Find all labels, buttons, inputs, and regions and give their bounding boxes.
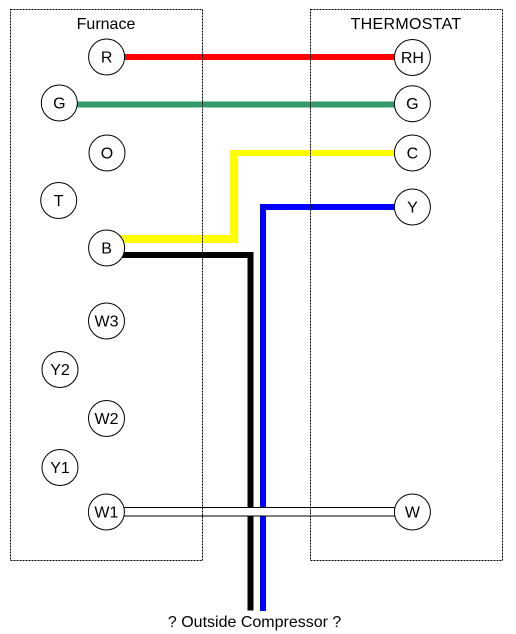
svg-text:THERMOSTAT: THERMOSTAT bbox=[351, 16, 462, 33]
terminal O bbox=[89, 135, 125, 171]
svg-text:Y2: Y2 bbox=[50, 362, 70, 379]
svg-text:C: C bbox=[407, 146, 419, 163]
svg-text:? Outside Compressor ?: ? Outside Compressor ? bbox=[168, 614, 342, 631]
terminal G thermostat bbox=[394, 86, 430, 122]
wire black B horizontal bbox=[106, 252, 254, 258]
wire blue Y vertical to compressor bbox=[260, 204, 266, 611]
svg-text:G: G bbox=[53, 96, 65, 113]
wire blue Y horizontal bbox=[260, 204, 413, 210]
terminal Y bbox=[394, 189, 430, 225]
terminal W bbox=[394, 494, 430, 530]
svg-text:W1: W1 bbox=[94, 505, 118, 522]
wire yellow C-B vertical bbox=[230, 150, 238, 243]
svg-text:W2: W2 bbox=[95, 411, 119, 428]
terminal Y2 bbox=[42, 352, 78, 388]
svg-text:W: W bbox=[405, 505, 421, 522]
svg-text:B: B bbox=[101, 241, 112, 258]
svg-text:T: T bbox=[54, 193, 64, 210]
svg-text:Y1: Y1 bbox=[50, 460, 70, 477]
terminal W2 bbox=[89, 401, 125, 437]
wire green G-G bbox=[59, 102, 413, 108]
thermostat box bbox=[311, 10, 503, 561]
wire yellow C-B horizontal bottom bbox=[106, 235, 238, 243]
svg-text:O: O bbox=[101, 146, 113, 163]
terminal C bbox=[394, 135, 430, 171]
terminal W1 bbox=[88, 494, 124, 530]
terminal G furnace bbox=[41, 85, 77, 121]
wire yellow C-B horizontal top bbox=[230, 150, 413, 156]
svg-text:R: R bbox=[101, 50, 113, 67]
svg-text:Furnace: Furnace bbox=[77, 16, 136, 33]
furnace box bbox=[11, 10, 203, 561]
svg-text:W3: W3 bbox=[95, 314, 119, 331]
terminal RH bbox=[394, 40, 430, 76]
wire white W1-W bbox=[115, 508, 400, 517]
wire red R-RH bbox=[106, 54, 413, 60]
svg-text:RH: RH bbox=[401, 50, 424, 67]
terminal W3 bbox=[89, 303, 125, 339]
svg-text:Y: Y bbox=[407, 200, 418, 217]
terminal B bbox=[89, 230, 125, 266]
terminal T bbox=[41, 183, 77, 219]
svg-text:G: G bbox=[406, 96, 418, 113]
terminal R bbox=[89, 39, 125, 75]
wire black B vertical to compressor bbox=[248, 252, 254, 611]
terminal Y1 bbox=[42, 450, 78, 486]
